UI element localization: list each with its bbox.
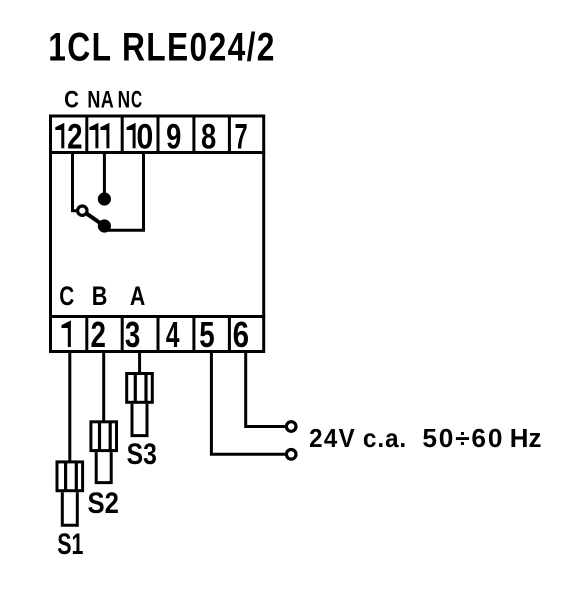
svg-text:3: 3	[125, 314, 140, 355]
svg-text:Hz: Hz	[510, 423, 542, 453]
bottom terminal strip top line	[49, 315, 265, 318]
terminal 11 digit 1b	[100, 123, 109, 149]
wire terminal 2 to sensor S2	[102, 353, 105, 421]
svg-text:A: A	[101, 87, 114, 113]
top strip cell dividers	[87, 116, 230, 153]
NO contact dot	[98, 192, 111, 205]
svg-text:c.a.: c.a.	[363, 424, 407, 453]
svg-text:2: 2	[67, 116, 82, 156]
sensor S2 probe body	[91, 422, 117, 451]
NC contact dot	[98, 219, 111, 232]
wire terminal 3 to sensor S3	[138, 353, 141, 373]
upper supply terminal circle	[286, 422, 296, 432]
svg-text:24V: 24V	[309, 424, 356, 453]
svg-text:N: N	[118, 87, 130, 113]
svg-text:4: 4	[166, 314, 180, 355]
svg-text:N: N	[87, 87, 100, 113]
bottom strip cell dividers	[87, 317, 230, 352]
top terminal strip bottom line	[49, 151, 265, 154]
svg-text:B: B	[92, 282, 108, 312]
relay pivot circle (common contact)	[78, 206, 87, 215]
svg-text:S3: S3	[127, 437, 157, 471]
svg-text:50÷60: 50÷60	[422, 423, 504, 453]
wire from terminal 12 to pivot	[73, 154, 77, 211]
sensor S2 probe shaft	[95, 452, 113, 483]
terminal 11 digit 1a	[89, 123, 98, 149]
relay module body outline	[51, 116, 264, 352]
wire terminal 5 to lower supply terminal	[211, 353, 285, 454]
relay lever arm	[86, 213, 104, 226]
sensor S1 probe body	[57, 462, 83, 491]
sensor S3 probe shaft	[131, 404, 149, 436]
svg-text:S1: S1	[57, 529, 83, 561]
wire terminal 6 to upper supply terminal	[246, 353, 285, 427]
svg-text:S2: S2	[87, 487, 118, 520]
svg-text:C: C	[131, 87, 142, 113]
svg-text:C: C	[64, 86, 79, 113]
svg-text:1CL RLE024/2: 1CL RLE024/2	[48, 25, 276, 69]
svg-text:C: C	[59, 282, 74, 312]
wire terminal 1 to sensor S1	[68, 353, 71, 462]
terminal 12 digit 1	[55, 123, 64, 149]
lower supply terminal circle	[286, 450, 296, 460]
svg-text:A: A	[130, 282, 145, 312]
svg-text:8: 8	[201, 117, 216, 156]
svg-text:6: 6	[233, 315, 249, 356]
svg-text:7: 7	[235, 118, 248, 157]
svg-text:5: 5	[199, 314, 214, 355]
svg-text:0: 0	[136, 116, 153, 155]
terminal 10 digit 1	[127, 123, 136, 149]
wire from terminal 10 down and left to NC dot	[104, 154, 143, 230]
terminal 1 digit	[62, 320, 71, 347]
svg-text:9: 9	[166, 117, 181, 156]
sensor S3 probe body	[127, 374, 153, 403]
svg-text:2: 2	[91, 314, 106, 355]
sensor S1 probe shaft	[61, 492, 79, 525]
wire from terminal 11 down	[103, 154, 106, 199]
